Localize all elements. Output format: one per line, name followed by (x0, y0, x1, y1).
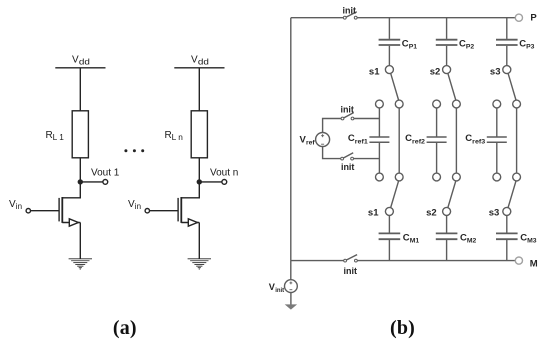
switch init (V_ref top) right contact (351, 117, 354, 120)
svg-text:R: R (46, 130, 53, 141)
wire source (stage 1) (62, 222, 80, 224)
svg-text:s3: s3 (489, 207, 500, 218)
wire gate input (stage n) (150, 210, 179, 212)
svg-text:L 1: L 1 (53, 133, 65, 142)
wire resistor to output node (stage 1) (79, 158, 81, 182)
switch init top-left contact (343, 16, 346, 19)
capacitor C_ref1 (369, 137, 389, 142)
resistor R_L n (stage n) (191, 111, 207, 158)
wire C_P1 to switch s1 top (388, 46, 390, 66)
wire gate input (stage 1) (31, 210, 60, 212)
switch init (V_ref bottom) left contact (341, 157, 344, 160)
wire C_M3 to bottom rail (506, 240, 508, 261)
transistor Mn channel bar (180, 197, 182, 223)
wire switch s1 to C_M1 (388, 215, 390, 232)
switch s1 bottom pole contact (385, 207, 393, 215)
capacitor C_P1 (379, 40, 401, 45)
Vdd supply rail (stage 1) (55, 67, 105, 69)
switch init (V_ref top) left contact (341, 117, 344, 120)
svg-text:ref1: ref1 (355, 139, 369, 146)
switch s1 bottom blade (391, 181, 399, 208)
ground symbol (stage n) (188, 259, 211, 269)
capacitor C_ref2 (427, 137, 447, 142)
svg-text:Vout n: Vout n (210, 167, 238, 178)
switch s3 top blade (508, 73, 516, 100)
switch init (V_ref bottom) right contact (351, 157, 354, 160)
svg-text:s2: s2 (426, 207, 437, 218)
svg-text:P3: P3 (526, 43, 535, 50)
svg-text:s2: s2 (430, 66, 441, 77)
svg-text:s1: s1 (368, 207, 379, 218)
wire C_ref3 branch upper (496, 108, 498, 137)
wire bypass branch 3 (516, 108, 518, 173)
contact bypass top branch 1 (395, 100, 403, 108)
wire V_ref top to init switch (323, 119, 342, 133)
transistor M1 gate bar (58, 198, 60, 222)
wire C_ref1 branch upper (378, 108, 380, 137)
ground arrow below V_init (285, 304, 297, 309)
svg-text:R: R (165, 130, 172, 141)
resistor R_L 1 (stage 1) (72, 111, 88, 158)
svg-text:init: init (275, 288, 284, 294)
switch s1 top blade (391, 73, 399, 100)
svg-text:init: init (340, 104, 354, 114)
wire C_M2 to bottom rail (446, 240, 448, 261)
svg-text:(b): (b) (390, 317, 415, 339)
switch s2 bottom blade (448, 181, 456, 208)
contact bypass top branch 3 (513, 100, 521, 108)
switch init top blade (346, 12, 357, 18)
wire bypass branch 2 (455, 108, 457, 173)
switch init bottom-left contact (344, 259, 347, 262)
wire C_P2 to switch s2 top (446, 46, 448, 66)
contact C_ref1 bottom (376, 173, 384, 181)
node Vout 1 junction dot (78, 179, 83, 184)
wire V_ref bottom to init switch (323, 147, 341, 159)
wire bypass branch 1 (398, 108, 400, 173)
top rail left segment (291, 17, 344, 19)
capacitor C_P2 (436, 40, 458, 45)
switch s2 top blade (448, 73, 456, 100)
wire node to output terminal (stage 1) (80, 181, 103, 183)
switch s2 bottom pole contact (443, 207, 451, 215)
voltage source V_ref (316, 133, 330, 147)
wire top rail to C_P2 (446, 18, 448, 39)
ground symbol (stage 1) (69, 259, 92, 269)
voltage source V_init (285, 280, 298, 293)
wire C_P3 to switch s3 top (506, 46, 508, 66)
wire source to ground (stage 1) (79, 223, 81, 259)
wire C_ref1 branch lower (378, 143, 380, 173)
svg-text:P1: P1 (409, 43, 418, 50)
node Vout n junction dot (197, 179, 202, 184)
wire top rail to C_P1 (388, 18, 390, 39)
svg-text:ref2: ref2 (412, 139, 426, 146)
svg-text:M3: M3 (527, 238, 537, 245)
switch init (V_ref bottom) blade (343, 153, 353, 158)
svg-text:s1: s1 (369, 66, 380, 77)
svg-text:P: P (530, 13, 537, 24)
terminal P (515, 14, 522, 21)
bottom rail left segment (291, 260, 344, 262)
wire drain to node (stage 1) (62, 182, 80, 198)
switch s3 bottom pole contact (503, 207, 511, 215)
contact bypass top branch 2 (453, 100, 461, 108)
source arrow (stage 1) (69, 219, 78, 226)
svg-text:in: in (135, 202, 141, 211)
wire Vdd to resistor (stage 1) (79, 68, 81, 111)
svg-text:dd: dd (198, 58, 210, 67)
bottom rail right segment (357, 260, 515, 262)
wire C_ref2 branch upper (436, 108, 438, 137)
svg-text:P2: P2 (466, 43, 475, 50)
switch s3 bottom blade (508, 181, 516, 208)
svg-text:M: M (530, 259, 538, 270)
ellipsis dots between stages (124, 149, 144, 152)
contact C_ref2 top (433, 100, 441, 108)
contact C_ref3 top (493, 100, 501, 108)
wire top rail to C_P3 (506, 18, 508, 39)
input terminal Vin (stage 1) (26, 209, 30, 213)
svg-text:in: in (16, 202, 22, 211)
contact bypass bottom branch 3 (513, 173, 521, 181)
svg-text:M1: M1 (410, 238, 420, 245)
svg-text:init: init (343, 5, 357, 15)
wire left rail to V_init (290, 261, 292, 280)
switch init bottom blade (346, 255, 357, 261)
svg-text:init: init (341, 162, 355, 172)
wire switch s3 to C_M3 (506, 215, 508, 232)
svg-text:init: init (344, 266, 358, 276)
Vdd supply rail (stage n) (174, 67, 224, 69)
wire C_ref3 branch lower (496, 143, 498, 173)
input terminal Vin (stage n) (145, 209, 149, 213)
wire C_M1 to bottom rail (388, 240, 390, 261)
capacitor C_M3 (496, 233, 518, 239)
output terminal Vout 1 (103, 180, 108, 185)
switch s1 top pole contact (385, 66, 393, 74)
contact C_ref3 bottom (493, 173, 501, 181)
wire resistor to output node (stage n) (198, 158, 200, 182)
wire C_ref2 branch lower (436, 143, 438, 173)
wire V_init to ground arrow (290, 293, 292, 305)
capacitor C_ref3 (487, 137, 507, 142)
top rail right segment (357, 17, 515, 19)
contact bypass bottom branch 2 (453, 173, 461, 181)
wire switch s2 to C_M2 (446, 215, 448, 232)
transistor Mn gate bar (177, 198, 179, 222)
switch init (V_ref top) blade (344, 113, 354, 118)
svg-text:(a): (a) (113, 317, 137, 339)
switch s2 top pole contact (443, 66, 451, 74)
capacitor C_M1 (379, 233, 401, 239)
transistor M1 channel bar (61, 197, 63, 223)
svg-text:M2: M2 (467, 238, 477, 245)
left vertical rail (290, 18, 292, 261)
wire source (stage n) (181, 222, 199, 224)
switch init bottom-right contact (355, 259, 358, 262)
svg-text:Vout 1: Vout 1 (91, 167, 120, 178)
terminal M (515, 257, 522, 264)
wire drain to node (stage n) (181, 182, 199, 198)
wire node to output terminal (stage n) (199, 181, 222, 183)
capacitor C_P3 (496, 40, 518, 45)
svg-text:dd: dd (79, 58, 91, 67)
wire Vdd to resistor (stage n) (198, 68, 200, 111)
contact bypass bottom branch 1 (395, 173, 403, 181)
wire init switch to C_ref1 bottom (353, 158, 379, 160)
svg-text:ref: ref (306, 140, 315, 147)
switch s3 top pole contact (503, 66, 511, 74)
source arrow (stage n) (188, 219, 197, 226)
svg-text:s3: s3 (490, 66, 501, 77)
contact C_ref1 top (376, 100, 384, 108)
switch init top-right contact (354, 16, 357, 19)
capacitor C_M2 (436, 233, 458, 239)
svg-text:L n: L n (172, 133, 183, 142)
contact C_ref2 bottom (433, 173, 441, 181)
wire source to ground (stage n) (198, 223, 200, 259)
wire init switch to C_ref1 top (354, 118, 380, 120)
svg-text:ref3: ref3 (472, 139, 486, 146)
output terminal Vout n (222, 180, 227, 185)
